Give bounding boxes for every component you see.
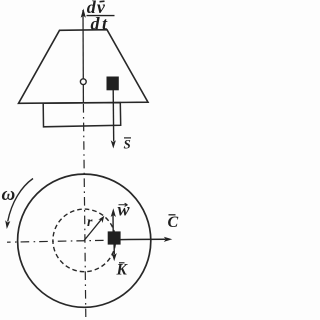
velocity w arrowhead (111, 208, 116, 217)
coriolis K arrow shaft (113, 245, 115, 255)
bar over v in numerator (100, 0, 105, 3)
pedestal rectangle (43, 103, 121, 127)
bar over C (169, 214, 176, 216)
omega rotation arc (8, 179, 33, 222)
dash-dot centerline vertical (83, 104, 85, 317)
paper background (0, 0, 179, 320)
centrifugal C arrow shaft (121, 238, 166, 240)
bar over S (124, 137, 131, 139)
acceleration arrow dv/dt head (81, 9, 86, 18)
pivot circle on axis (80, 79, 86, 85)
svg-text:S: S (124, 137, 131, 152)
velocity w arrow shaft (112, 215, 114, 232)
radius r arrowhead (98, 216, 104, 223)
mass square (top figure) (107, 77, 119, 91)
fraction bar (87, 15, 115, 17)
dash-dot centerline horizontal (7, 240, 107, 242)
omega arc arrowhead (5, 220, 10, 229)
centrifugal C arrowhead (164, 237, 173, 242)
force S arrowhead (111, 140, 116, 148)
svg-text:K: K (116, 262, 129, 279)
svg-text:w: w (118, 200, 131, 220)
axis solid (top figure) (82, 10, 84, 104)
disc outline (big circle) (18, 174, 151, 307)
mass square (bottom figure) (108, 231, 121, 244)
vector arrow over w (119, 203, 128, 206)
trajectory dashed circle (53, 209, 116, 272)
bar over K (119, 262, 125, 264)
force S arrow shaft (112, 90, 115, 142)
svg-text:r: r (87, 215, 93, 230)
radius r arrow shaft (84, 219, 101, 240)
svg-text:C: C (168, 214, 179, 231)
coriolis K arrowhead (112, 253, 117, 261)
cone body (trapezoid) (19, 30, 149, 104)
